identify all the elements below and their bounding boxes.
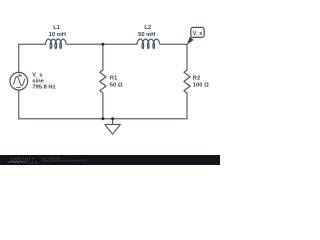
svg-text:795.8 Hz: 795.8 Hz: [32, 85, 55, 91]
inductor L1: [45, 39, 66, 49]
node junction dot R1 bottom: [101, 117, 104, 120]
resistor R1 zigzag: [100, 70, 106, 93]
V_s plus sign: [18, 74, 21, 77]
wire top-left to L1: [19, 43, 46, 45]
wire R1 top stub: [102, 44, 104, 70]
svg-text:10 mH: 10 mH: [49, 32, 66, 38]
svg-text:L1: L1: [53, 25, 61, 31]
inductor L2: [137, 39, 160, 49]
node junction dot R1 top: [101, 43, 104, 46]
node V_x flag pointer: [187, 37, 194, 45]
svg-text:http://circuitlab.com/c/dw7b64: http://circuitlab.com/c/dw7b64: [42, 159, 87, 163]
node V_x flag box: [191, 27, 204, 37]
V_s minus sign: [17, 86, 21, 88]
ground triangle: [105, 124, 121, 134]
svg-text:LAB: LAB: [28, 160, 39, 165]
wire L2 to top-right corner: [160, 43, 187, 45]
wire L1 to L2: [66, 43, 137, 45]
svg-text:50 Ω: 50 Ω: [110, 82, 123, 88]
svg-text:V_x: V_x: [193, 31, 203, 37]
voltage source V_s circle: [10, 72, 28, 90]
svg-text:R1: R1: [110, 75, 118, 81]
svg-text:100 Ω: 100 Ω: [193, 82, 209, 88]
wire R1 bottom stub: [102, 93, 104, 119]
footer logo resistor line: [8, 161, 27, 163]
wire left vertical lower: [18, 90, 20, 119]
wire right vertical lower: [186, 93, 188, 119]
svg-text:R2: R2: [193, 75, 200, 81]
wire right vertical upper: [186, 44, 188, 70]
V_s sine squiggle: [13, 76, 24, 85]
wire left vertical upper: [18, 44, 20, 72]
ground stem: [112, 119, 114, 125]
footer bar: [0, 155, 220, 165]
resistor R2 zigzag: [184, 70, 190, 93]
node junction dot ground: [111, 117, 114, 120]
wire bottom: [19, 118, 187, 120]
svg-text:L2: L2: [144, 25, 151, 31]
svg-text:50 mH: 50 mH: [138, 32, 155, 38]
